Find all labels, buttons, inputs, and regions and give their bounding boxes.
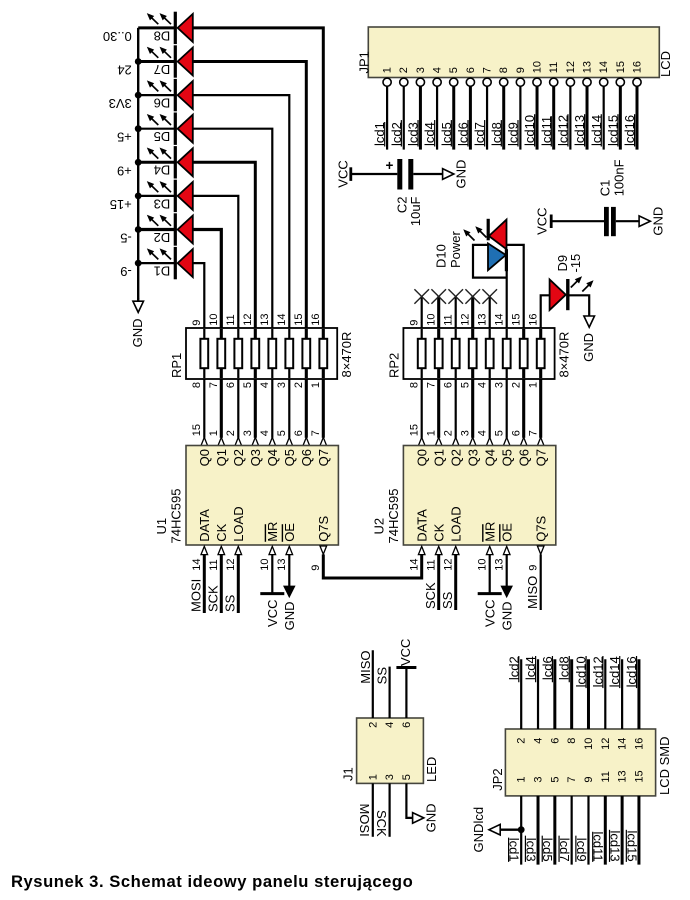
svg-text:6: 6: [465, 67, 477, 73]
wire RP2 pin 8 to U2 Q0: [421, 379, 423, 438]
svg-text:GND: GND: [499, 602, 514, 631]
wire RP2 pin 16 to D9 anode: [541, 295, 550, 328]
svg-text:2: 2: [398, 67, 410, 73]
svg-text:4: 4: [533, 738, 545, 744]
svg-text:100nF: 100nF: [611, 159, 626, 196]
svg-text:74HC595: 74HC595: [169, 489, 184, 544]
svg-text:Q2: Q2: [231, 449, 246, 466]
LED D5: [147, 113, 192, 145]
wire D3 anode to RP1 pin 11: [193, 196, 239, 328]
svg-text:13: 13: [582, 61, 594, 73]
U2 pin Q0 arrowhead: [418, 437, 425, 445]
svg-text:8: 8: [409, 382, 421, 388]
svg-text:CK: CK: [431, 523, 446, 541]
wire MOSI to U1 DATA: [203, 554, 206, 613]
U1 pin Q4 arrowhead: [269, 437, 276, 445]
svg-text:GNDlcd: GNDlcd: [471, 807, 486, 853]
wire D7 cathode to bus: [138, 60, 175, 63]
svg-text:11: 11: [443, 314, 455, 325]
wire RP2 pin 15 to D10 right terminal: [507, 245, 524, 328]
svg-text:8: 8: [191, 382, 203, 388]
wire SS to U2 LOAD: [454, 554, 457, 610]
svg-text:MISO: MISO: [525, 576, 540, 609]
svg-text:GND: GND: [282, 602, 297, 631]
svg-text:+: +: [386, 158, 394, 173]
svg-text:Q5: Q5: [499, 449, 514, 466]
svg-text:-9: -9: [120, 264, 132, 279]
svg-text:12: 12: [225, 559, 237, 571]
wire D2 cathode to bus: [138, 228, 175, 231]
svg-text:4: 4: [432, 67, 444, 73]
svg-text:1: 1: [382, 67, 394, 73]
svg-text:1: 1: [426, 430, 438, 436]
wire lcd9 (JP1): [519, 86, 521, 149]
svg-text:10: 10: [426, 314, 438, 326]
wire lcd6 (JP2 top): [553, 659, 556, 729]
wire RP2 pin 4 to U2 Q4: [489, 379, 491, 438]
svg-text:3: 3: [460, 430, 472, 436]
wire SS to J1 pin 4: [389, 667, 391, 718]
wire lcd9 (JP2 bottom): [587, 796, 589, 865]
svg-text:3: 3: [276, 382, 288, 388]
JP1 pin 6 circle: [466, 78, 474, 86]
svg-text:MOSI: MOSI: [357, 803, 372, 836]
svg-text:LCD: LCD: [658, 51, 673, 77]
wire U2 OE to GND: [506, 554, 508, 586]
no-connect RP2 pin 9: [421, 297, 423, 329]
svg-text:7: 7: [482, 67, 494, 73]
svg-text:15: 15: [293, 314, 305, 326]
svg-text:Q7: Q7: [316, 449, 331, 466]
svg-text:VCC: VCC: [265, 600, 280, 627]
svg-text:MR: MR: [265, 522, 280, 542]
svg-text:5: 5: [276, 430, 288, 436]
wire lcd16 (JP1): [636, 86, 639, 149]
wire RP2 pin 1 to U2 Q7: [539, 379, 542, 438]
JP1 pin 3 circle: [416, 78, 424, 86]
wire SS to U1 LOAD: [237, 554, 240, 613]
pin 11 (CK) arrowhead: [218, 546, 225, 554]
svg-text:15: 15: [511, 314, 523, 326]
wire D4 anode to RP1 pin 12: [193, 162, 256, 328]
connector J1 body: [357, 718, 424, 783]
svg-text:2: 2: [367, 722, 379, 728]
shift register U1 74HC595 body: [186, 446, 338, 546]
svg-text:24: 24: [117, 63, 131, 78]
svg-text:D4: D4: [154, 163, 171, 178]
JP1 pin 11 circle: [550, 78, 558, 86]
pin 12 (LOAD) arrowhead: [235, 546, 242, 554]
wire RP1 pin 1 to U1 Q7: [322, 379, 325, 438]
LED D3: [147, 180, 192, 212]
U1 pin Q0 arrowhead: [201, 437, 208, 445]
svg-text:JP1: JP1: [356, 51, 371, 73]
power symbol VCC (U1 MR): [260, 592, 284, 595]
svg-text:13: 13: [276, 559, 288, 571]
wire lcd12 (JP1): [569, 86, 571, 149]
svg-text:11: 11: [426, 559, 438, 570]
U1 pin Q3 arrowhead: [252, 437, 259, 445]
wire RP1 pin 2 to U1 Q6: [305, 379, 308, 438]
JP1 pin 14 circle: [600, 78, 608, 86]
RP1 resistor element 5: [271, 329, 273, 378]
U2 pin Q4 arrowhead: [486, 437, 493, 445]
svg-text:-5: -5: [120, 231, 132, 246]
wire lcd13 (JP1): [586, 86, 589, 149]
JP1 pin 4 circle: [433, 78, 441, 86]
wire D4 cathode to bus: [138, 161, 175, 164]
svg-text:2: 2: [225, 430, 237, 436]
wire lcd13 (JP2 bottom): [621, 796, 624, 865]
svg-text:Q1: Q1: [214, 449, 229, 466]
wire RP2 pin 6 to U2 Q2: [455, 379, 457, 438]
wire D6 cathode to bus: [138, 94, 175, 96]
svg-text:9: 9: [310, 565, 322, 571]
ground symbol GND (U2 OE): [501, 586, 512, 597]
U1 pin Q5 arrowhead: [286, 437, 293, 445]
RP2 resistor element 3: [455, 329, 457, 378]
svg-text:15: 15: [633, 770, 645, 782]
svg-text:OE: OE: [282, 523, 297, 542]
wire lcd3 (JP1): [419, 86, 422, 149]
svg-text:OE: OE: [499, 523, 514, 542]
LED D1: [147, 247, 192, 279]
svg-text:Q0: Q0: [414, 449, 429, 466]
pin 9 (Q7S) arrowhead: [320, 546, 327, 554]
svg-text:GND: GND: [130, 319, 145, 348]
svg-text:SCK: SCK: [206, 585, 221, 612]
wire lcd10 (JP2 top): [587, 659, 590, 729]
svg-text:2: 2: [293, 382, 305, 388]
pin 14 (DATA) arrowhead: [201, 546, 208, 554]
junction bus/D6: [135, 92, 142, 99]
wire lcd4 (JP2 top): [537, 659, 539, 729]
wire RP1 pin 5 to U1 Q3: [254, 379, 257, 438]
wire RP1 pin 6 to U1 Q2: [237, 379, 239, 438]
svg-text:GND: GND: [581, 333, 596, 362]
ground symbol GND (J1): [413, 813, 424, 824]
svg-text:8×470R: 8×470R: [557, 332, 572, 378]
wire RP2 pin 3 to U2 Q5: [506, 379, 508, 438]
LED D7: [147, 45, 192, 77]
wire VCC to C1: [551, 220, 604, 222]
wire RP1 pin 3 to U1 Q5: [288, 379, 290, 438]
wire U1 Q7S to U2 DATA: [323, 554, 421, 578]
LED D2: [147, 213, 192, 245]
svg-text:12: 12: [242, 314, 254, 326]
svg-text:D2: D2: [154, 230, 171, 245]
svg-text:6: 6: [443, 382, 455, 388]
svg-text:+5: +5: [117, 130, 132, 145]
wire lcd5 (JP2 bottom): [553, 796, 556, 865]
wire lcd2 (JP2 top): [520, 659, 522, 729]
svg-text:Q1: Q1: [431, 449, 446, 466]
svg-text:8: 8: [498, 67, 510, 73]
svg-text:5: 5: [460, 382, 472, 388]
U1 pin Q7 arrowhead: [320, 437, 327, 445]
svg-text:3: 3: [242, 430, 254, 436]
svg-text:D1: D1: [154, 264, 171, 279]
svg-text:7: 7: [528, 430, 540, 436]
RP2 resistor element 5: [489, 329, 491, 378]
wire D5 cathode to bus: [138, 128, 175, 130]
pin 11 (CK) arrowhead: [435, 546, 442, 554]
shift register U2 74HC595 body: [403, 446, 555, 546]
svg-text:15: 15: [409, 424, 421, 436]
LED D6: [147, 79, 192, 111]
wire C2 to GND: [413, 173, 444, 175]
ground symbol GND (C1): [639, 216, 650, 227]
junction bus/D7: [135, 58, 142, 65]
svg-text:6: 6: [293, 430, 305, 436]
wire lcd1 (JP1): [386, 86, 388, 149]
svg-text:5: 5: [549, 776, 561, 782]
wire lcd2 (JP1): [403, 86, 405, 149]
svg-text:Q0: Q0: [197, 449, 212, 466]
svg-text:11: 11: [600, 771, 612, 782]
svg-text:MOSI: MOSI: [189, 579, 204, 612]
wire RP1 pin 8 to U1 Q0: [203, 379, 205, 438]
svg-text:13: 13: [477, 314, 489, 326]
wire lcd11 (JP1): [552, 86, 555, 149]
wire D8 anode to RP1 pin 16: [193, 28, 323, 328]
svg-text:C1: C1: [598, 180, 613, 197]
svg-text:0..30: 0..30: [103, 29, 132, 44]
U1 pin Q6 arrowhead: [303, 437, 310, 445]
svg-text:7: 7: [426, 382, 438, 388]
RP2 resistor element 4: [471, 329, 474, 378]
svg-text:12: 12: [460, 314, 472, 326]
JP1 pin 2 circle: [400, 78, 408, 86]
wire lcd16 (JP2 top): [637, 659, 640, 729]
RP1 resistor element 6: [288, 329, 290, 378]
power symbol VCC (J1 pin 6): [396, 666, 416, 669]
wire lcd7 (JP1): [486, 86, 488, 149]
JP1 pin 8 circle: [500, 78, 508, 86]
svg-text:Q7S: Q7S: [533, 515, 548, 541]
wire lcd1 (JP2 bottom): [520, 796, 522, 865]
RP2 resistor element 8: [539, 329, 542, 378]
svg-text:DATA: DATA: [414, 509, 429, 542]
svg-text:U2: U2: [372, 518, 387, 535]
svg-text:LCD SMD: LCD SMD: [657, 736, 672, 795]
pin 10 (MR) arrowhead: [486, 546, 493, 554]
svg-text:12: 12: [443, 559, 455, 571]
svg-text:14: 14: [276, 314, 288, 326]
svg-text:10: 10: [477, 559, 489, 571]
svg-text:7: 7: [208, 382, 220, 388]
svg-text:10: 10: [259, 559, 271, 571]
svg-text:4: 4: [477, 430, 489, 436]
svg-text:4: 4: [384, 722, 396, 728]
svg-text:9: 9: [515, 67, 527, 73]
svg-text:14: 14: [617, 738, 629, 750]
wire lcd3 (JP2 bottom): [537, 796, 540, 865]
svg-text:D6: D6: [154, 96, 171, 111]
svg-text:6: 6: [549, 738, 561, 744]
svg-text:9: 9: [409, 320, 421, 326]
ground symbol GNDlcd: [489, 824, 500, 835]
svg-text:2: 2: [516, 738, 528, 744]
svg-text:LOAD: LOAD: [231, 506, 246, 541]
wire U1 MR to VCC: [271, 554, 273, 593]
pin 10 (MR) arrowhead: [269, 546, 276, 554]
svg-text:11: 11: [208, 559, 220, 570]
svg-text:LOAD: LOAD: [448, 506, 463, 541]
svg-text:4: 4: [477, 382, 489, 388]
svg-text:D5: D5: [154, 129, 171, 144]
no-connect RP2 pin 11: [455, 297, 457, 329]
svg-text:Q7S: Q7S: [316, 515, 331, 541]
ground symbol GND (C2): [443, 169, 454, 180]
svg-text:74HC595: 74HC595: [386, 489, 401, 544]
svg-text:10: 10: [532, 61, 544, 73]
svg-text:J1: J1: [341, 767, 356, 781]
svg-text:Q3: Q3: [248, 449, 263, 466]
connector JP1 body: [368, 27, 659, 78]
svg-text:13: 13: [494, 559, 506, 571]
svg-text:9: 9: [528, 565, 540, 571]
svg-text:8×470R: 8×470R: [339, 332, 354, 378]
svg-text:7: 7: [310, 430, 322, 436]
RP1 resistor element 2: [220, 329, 223, 378]
wire lcd4 (JP1): [436, 86, 438, 149]
wire RP2 pin 7 to U2 Q1: [437, 379, 440, 438]
JP1 pin 16 circle: [633, 78, 641, 86]
svg-text:VCC: VCC: [336, 160, 351, 187]
ground symbol GND (LED bus): [133, 301, 144, 312]
svg-text:15: 15: [615, 61, 627, 73]
svg-text:D7: D7: [154, 62, 171, 77]
svg-text:Q4: Q4: [482, 449, 497, 466]
wire D7 anode to RP1 pin 15: [193, 62, 306, 329]
JP1 pin 13 circle: [583, 78, 591, 86]
wire SCK to J1 pin 3: [389, 783, 391, 836]
wire lcd8 (JP1): [502, 86, 505, 149]
svg-text:6: 6: [511, 430, 523, 436]
JP1 pin 12 circle: [566, 78, 574, 86]
svg-text:1: 1: [528, 382, 540, 388]
svg-text:VCC: VCC: [398, 639, 413, 666]
svg-text:16: 16: [632, 61, 644, 73]
svg-text:1: 1: [310, 382, 322, 388]
svg-text:11: 11: [548, 62, 560, 73]
RP1 resistor element 8: [322, 329, 325, 378]
RP1 resistor element 1: [203, 329, 205, 378]
U1 pin Q2 arrowhead: [235, 437, 242, 445]
resistor network RP2 body: [403, 328, 554, 379]
wire U1 OE to GND: [288, 554, 290, 586]
ground symbol GND (D9): [584, 316, 595, 327]
LED D4: [147, 146, 192, 178]
RP2 resistor element 7: [522, 329, 525, 378]
wire RP2 pin 14 to D10: [506, 271, 508, 328]
svg-text:SS: SS: [375, 667, 390, 685]
wire U2 Q7S MISO: [540, 554, 542, 610]
svg-text:3: 3: [533, 776, 545, 782]
U2 pin Q7 arrowhead: [537, 437, 544, 445]
svg-text:Power: Power: [448, 230, 463, 268]
RP1 resistor element 4: [254, 329, 257, 378]
wire SCK to U2 CK: [437, 554, 440, 610]
svg-text:7: 7: [566, 776, 578, 782]
wire RP1 pin 4 to U1 Q4: [271, 379, 273, 438]
svg-text:Q2: Q2: [448, 449, 463, 466]
wire RP2 pin 5 to U2 Q3: [471, 379, 474, 438]
svg-text:Q7: Q7: [533, 449, 548, 466]
svg-text:SCK: SCK: [374, 810, 389, 837]
bicolor LED D10: [464, 219, 507, 271]
U2 pin Q3 arrowhead: [469, 437, 476, 445]
svg-text:+15: +15: [110, 197, 132, 212]
ground symbol GND (U1 OE): [284, 586, 295, 597]
svg-text:VCC: VCC: [482, 600, 497, 627]
wire D10 left terminal loop: [473, 245, 507, 278]
wire RP2 pin 2 to U2 Q6: [522, 379, 525, 438]
svg-text:11: 11: [225, 314, 237, 325]
svg-text:Q5: Q5: [282, 449, 297, 466]
svg-text:14: 14: [409, 559, 421, 571]
wire lcd5 (JP1): [452, 86, 455, 149]
wire lcd6 (JP1): [469, 86, 472, 149]
svg-text:+9: +9: [117, 163, 132, 178]
svg-text:5: 5: [448, 67, 460, 73]
wire lcd7 (JP2 bottom): [571, 796, 573, 865]
JP1 pin 15 circle: [616, 78, 624, 86]
wire lcd15 (JP2 bottom): [637, 796, 640, 865]
svg-text:RP2: RP2: [386, 353, 401, 378]
svg-text:Rysunek 3. Schemat ideowy pane: Rysunek 3. Schemat ideowy panelu sterują…: [11, 872, 413, 891]
svg-text:4: 4: [259, 382, 271, 388]
svg-text:16: 16: [528, 314, 540, 326]
svg-text:10: 10: [583, 738, 595, 750]
junction GNDlcd/lcd1: [518, 826, 525, 833]
svg-text:2: 2: [443, 430, 455, 436]
wire lcd14 (JP1): [603, 86, 605, 149]
svg-text:Q4: Q4: [265, 449, 280, 466]
svg-text:D10: D10: [434, 244, 449, 268]
wire VCC to J1 pin 6: [405, 668, 407, 719]
power symbol VCC (U2 MR): [478, 592, 502, 595]
capacitor C1: [604, 207, 616, 236]
wire SCK to U1 CK: [220, 554, 223, 613]
svg-text:13: 13: [259, 314, 271, 326]
svg-text:12: 12: [565, 61, 577, 73]
wire lcd11 (JP2 bottom): [604, 796, 607, 865]
svg-text:U1: U1: [154, 518, 169, 535]
wire C1 to GND: [616, 220, 641, 222]
wire GNDlcd to JP2 pin 1: [501, 829, 522, 831]
wire lcd14 (JP2 top): [621, 659, 623, 729]
svg-text:Q6: Q6: [516, 449, 531, 466]
wire VCC to C2: [351, 173, 398, 175]
junction bus/D4: [135, 159, 142, 166]
svg-text:12: 12: [600, 738, 612, 750]
svg-text:14: 14: [494, 314, 506, 326]
wire D5 anode to RP1 pin 13: [193, 129, 272, 328]
U2 pin Q1 arrowhead: [435, 437, 442, 445]
capacitor C2 polarized: [386, 158, 414, 190]
pin 13 (OE) arrowhead: [503, 546, 510, 554]
svg-text:10: 10: [208, 314, 220, 326]
wire lcd10 (JP1): [536, 86, 539, 149]
svg-text:Q6: Q6: [299, 449, 314, 466]
wire RP1 pin 7 to U1 Q1: [220, 379, 223, 438]
svg-text:6: 6: [225, 382, 237, 388]
wire D8 cathode to bus: [138, 26, 175, 29]
svg-text:10uF: 10uF: [408, 196, 423, 226]
svg-text:8: 8: [566, 738, 578, 744]
